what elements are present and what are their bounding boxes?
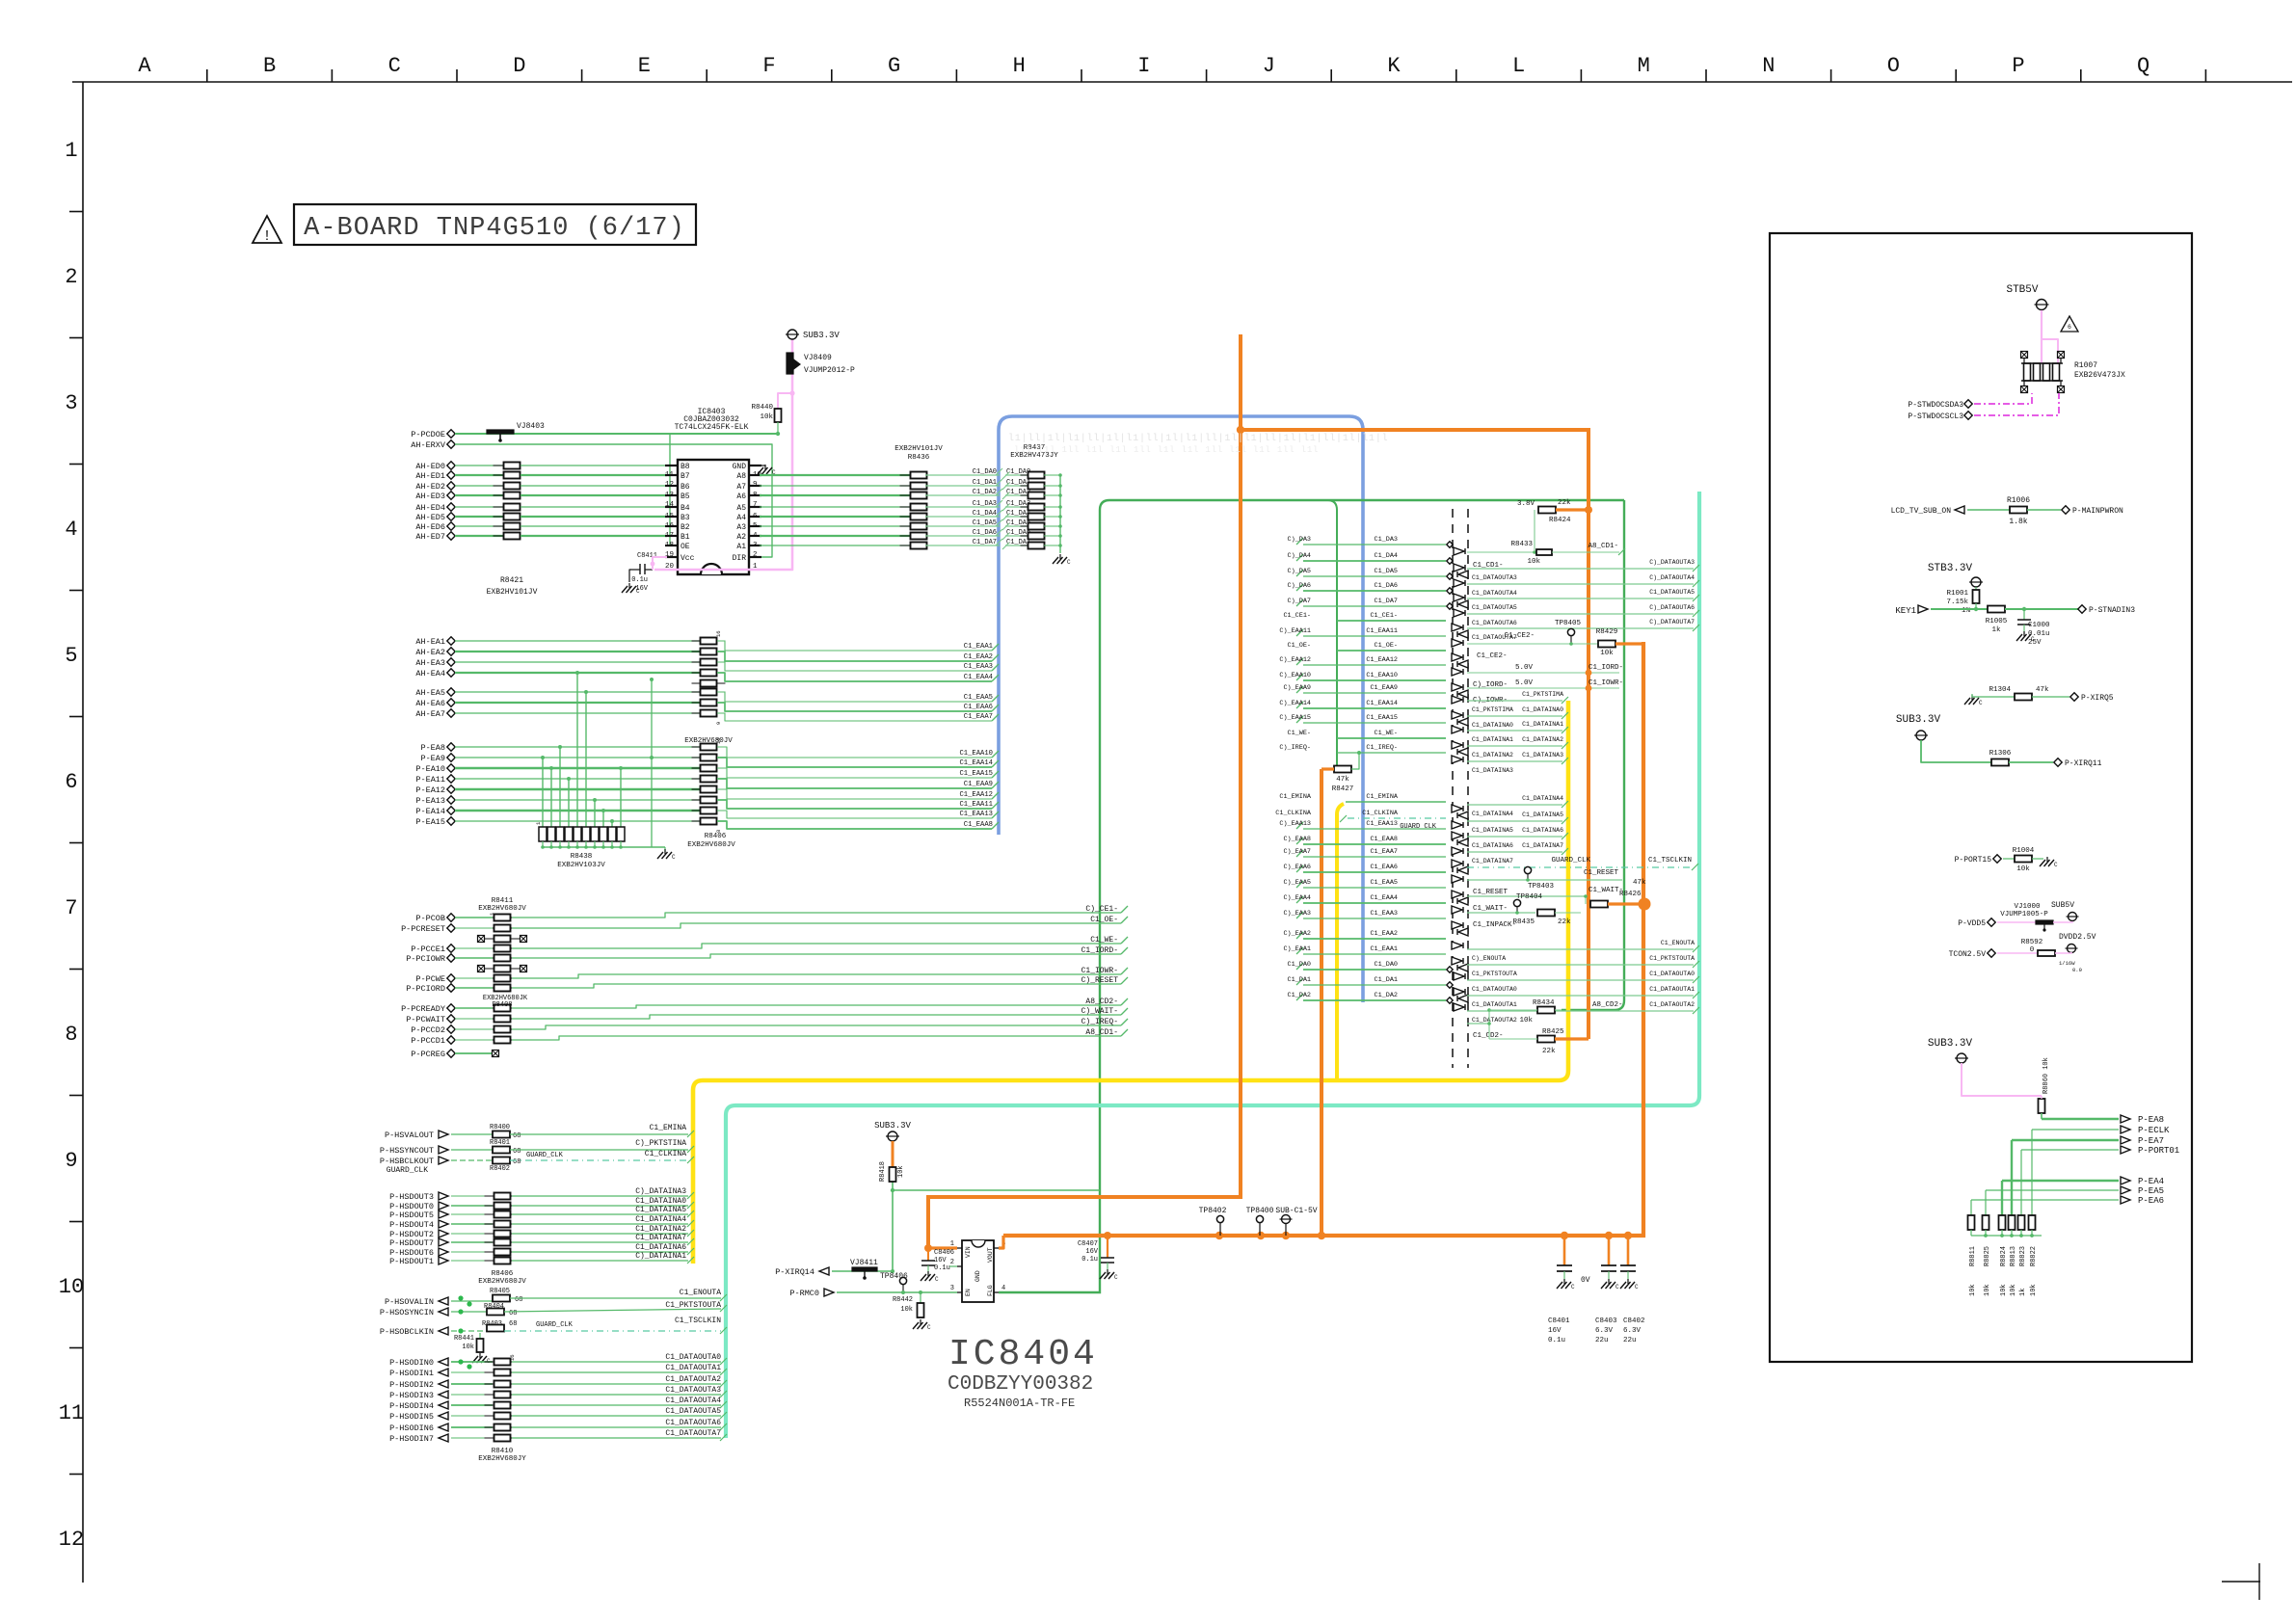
svg-text:0.1u: 0.1u	[1548, 1337, 1565, 1344]
resistor network R8406 lower EA	[692, 746, 726, 748]
svg-text:AH-ED7: AH-ED7	[415, 532, 445, 542]
svg-text:EN: EN	[965, 1289, 972, 1296]
svg-text:R8426: R8426	[1619, 891, 1642, 898]
svg-text:C1000: C1000	[2028, 622, 2050, 629]
svg-text:C1_PKTSTIMA: C1_PKTSTIMA	[1472, 706, 1513, 713]
svg-text:10k: 10k	[897, 1165, 905, 1178]
node P-XIRQ14	[819, 1267, 829, 1275]
svg-text:VJUMP2012-P: VJUMP2012-P	[804, 366, 855, 375]
svg-text:C1_WE-: C1_WE-	[1375, 730, 1398, 737]
svg-text:C)_EAA12: C)_EAA12	[1279, 656, 1311, 664]
svg-text:SUB3.3V: SUB3.3V	[874, 1121, 911, 1131]
svg-text:16V: 16V	[1548, 1327, 1562, 1335]
svg-text:C1_EAA4: C1_EAA4	[964, 674, 993, 681]
wire pink to R8860	[1962, 1063, 2042, 1096]
svg-text:B8: B8	[681, 463, 690, 471]
frame border top line	[72, 81, 2292, 83]
wire AH-ERXV to DIR	[455, 444, 772, 557]
svg-text:A7: A7	[736, 483, 746, 492]
nodes AH-ED0..7	[447, 462, 455, 469]
svg-text:10k: 10k	[2030, 1284, 2038, 1296]
svg-text:C1_DATAOUTA1: C1_DATAOUTA1	[1649, 986, 1695, 993]
row P-ECLK	[2032, 1129, 2119, 1131]
wire orange VOUT to bus	[999, 1236, 1003, 1248]
svg-text:EXB2HV680JV: EXB2HV680JV	[478, 1278, 526, 1286]
svg-text:R1001: R1001	[1946, 590, 1968, 598]
svg-text:SUB3.3V: SUB3.3V	[803, 331, 840, 340]
svg-text:3.8V: 3.8V	[1517, 500, 1535, 508]
svg-text:R8440: R8440	[751, 404, 773, 412]
svg-text:A4: A4	[736, 514, 746, 522]
svg-text:C1_EAA7: C1_EAA7	[1370, 848, 1398, 856]
svg-text:P-HSBCLKOUT: P-HSBCLKOUT	[380, 1157, 434, 1166]
svg-text:LCD_TV_SUB_ON: LCD_TV_SUB_ON	[1891, 507, 1952, 516]
wires R8421 to IC8403	[521, 465, 667, 466]
svg-text:F: F	[762, 54, 775, 78]
svg-text:A8_CD2-: A8_CD2-	[1592, 1001, 1623, 1009]
svg-text:R1007: R1007	[2074, 361, 2097, 370]
svg-text:10k: 10k	[1600, 650, 1614, 657]
svg-text:SUB5V: SUB5V	[2051, 901, 2074, 910]
ground at IC8403 GND pin	[760, 465, 765, 466]
svg-text:C1_DATAINA6: C1_DATAINA6	[1522, 827, 1563, 834]
svg-text:C8402: C8402	[1623, 1317, 1645, 1325]
svg-text:C1_EAA10: C1_EAA10	[1366, 672, 1398, 679]
resistor network R8421	[494, 465, 531, 466]
svg-text:P-PCREG: P-PCREG	[411, 1050, 445, 1059]
svg-text:EXB26V473JX: EXB26V473JX	[2074, 371, 2125, 380]
svg-text:P-EA11: P-EA11	[415, 775, 445, 785]
svg-text:D: D	[513, 54, 525, 78]
svg-text:C)_EAA9: C)_EAA9	[1283, 684, 1311, 692]
resistor array R1007	[2024, 363, 2031, 381]
svg-text:C)_PKTSTINA: C)_PKTSTINA	[635, 1139, 686, 1148]
wire orange 446 horizontal	[1241, 430, 1589, 1039]
svg-text:C1_DATAINA3: C1_DATAINA3	[1522, 752, 1563, 758]
svg-text:EXB2HV680JV: EXB2HV680JV	[687, 841, 735, 849]
resistor network R8411	[485, 917, 521, 918]
svg-text:C1_EAA15: C1_EAA15	[1366, 714, 1398, 722]
svg-text:C1_IOWR-: C1_IOWR-	[1081, 967, 1118, 975]
node P-RMC0	[824, 1289, 834, 1296]
resistor network R8436	[900, 474, 938, 476]
svg-text:C1_DATAOUTA5: C1_DATAOUTA5	[665, 1407, 721, 1416]
svg-text:C1_DATAINA3: C1_DATAINA3	[1472, 767, 1513, 774]
svg-text:TCON2.5V: TCON2.5V	[1949, 950, 1987, 959]
svg-text:C1_DATAOUTA6: C1_DATAOUTA6	[665, 1419, 721, 1427]
svg-text:VJ1000: VJ1000	[2014, 903, 2041, 911]
wires HSODIN outputs to cyan	[512, 1361, 721, 1363]
svg-text:B7: B7	[681, 472, 690, 481]
svg-text:C1_DATAOUTA2: C1_DATAOUTA2	[1649, 1001, 1695, 1008]
wire orange R8427 drop	[1320, 769, 1323, 1236]
svg-text:I: I	[1137, 54, 1150, 78]
resistor network R8410	[485, 1361, 521, 1363]
testpoint TP8406 circle	[899, 1277, 906, 1284]
svg-text:10k: 10k	[2016, 865, 2030, 873]
svg-text:B4: B4	[681, 504, 690, 513]
group2 ENOUTA outputs to cyan	[1467, 948, 1694, 950]
svg-text:C1_TSCLKIN: C1_TSCLKIN	[675, 1317, 721, 1325]
svg-text:R1304: R1304	[1989, 686, 2011, 694]
svg-text:P-EA4: P-EA4	[2138, 1177, 2164, 1186]
svg-text:C)_EAA14: C)_EAA14	[1279, 700, 1311, 707]
resistor R1004	[2015, 856, 2032, 863]
svg-text:R8401: R8401	[490, 1139, 510, 1147]
svg-text:C1_EAA3: C1_EAA3	[1370, 910, 1398, 918]
svg-text:R8408: R8408	[492, 1001, 512, 1009]
svg-text:6.3V: 6.3V	[1623, 1327, 1642, 1335]
svg-text:C1_INPACK-: C1_INPACK-	[1473, 921, 1516, 929]
svg-text:C1_DATAOUTA0: C1_DATAOUTA0	[665, 1353, 721, 1362]
row P-EA4	[2002, 1180, 2119, 1182]
svg-text:16: 16	[509, 1354, 516, 1361]
svg-text:C1_PKTSTOUTA: C1_PKTSTOUTA	[1649, 955, 1695, 962]
svg-text:C1_DA7: C1_DA7	[973, 539, 997, 546]
svg-text:4: 4	[65, 518, 77, 542]
frame border left line	[82, 82, 84, 1583]
resistor R8400	[493, 1131, 510, 1138]
group1 IORD IOWR rows	[1467, 672, 1619, 674]
warning triangle 6	[2061, 316, 2078, 332]
svg-text:16: 16	[715, 737, 722, 744]
svg-text:0.1u: 0.1u	[1081, 1256, 1098, 1264]
wires EA lower outputs	[717, 747, 992, 758]
svg-text:22u: 22u	[1595, 1337, 1609, 1344]
svg-text:R8411: R8411	[492, 897, 514, 905]
svg-text:68: 68	[513, 1132, 521, 1140]
wire blue bus C1_DA	[999, 416, 1363, 1002]
svg-text:P-HSODIN6: P-HSODIN6	[389, 1423, 434, 1433]
svg-text:A3: A3	[736, 523, 746, 532]
svg-text:C1_DATAOUTA3: C1_DATAOUTA3	[1472, 574, 1517, 581]
svg-text:C1_DATAINA5: C1_DATAINA5	[635, 1206, 686, 1214]
svg-text:A8_CD1-: A8_CD1-	[1588, 543, 1618, 550]
row P-EA5	[1986, 1189, 2119, 1191]
svg-text:M: M	[1638, 54, 1650, 78]
svg-text:C8403: C8403	[1595, 1317, 1617, 1325]
svg-text:12: 12	[59, 1528, 84, 1552]
svg-text:7.15k: 7.15k	[1946, 599, 1968, 606]
svg-text:K: K	[1387, 54, 1401, 78]
svg-text:R8438: R8438	[571, 853, 593, 861]
svg-text:C1_OE-: C1_OE-	[1090, 916, 1118, 924]
power SUB3.3V top	[788, 330, 797, 339]
svg-text:P-EA6: P-EA6	[2138, 1196, 2164, 1206]
title box A-BOARD TNP4G510 (6/17)	[294, 204, 696, 245]
wires AH-ED to R8421	[455, 465, 504, 466]
row P-EA7	[2012, 1139, 2119, 1141]
jumper VJ8411	[852, 1267, 877, 1271]
svg-text:C1_EAA14: C1_EAA14	[959, 759, 993, 767]
svg-text:TP8403: TP8403	[1528, 883, 1555, 891]
svg-text:C)_EAA5: C)_EAA5	[1283, 879, 1311, 887]
svg-text:E: E	[638, 54, 651, 78]
svg-text:C)_EAA8: C)_EAA8	[1283, 836, 1311, 843]
svg-text:P-PCIOWR: P-PCIOWR	[406, 954, 445, 964]
svg-text:C1_CLKINA: C1_CLKINA	[1275, 810, 1312, 817]
wire green bus ENOUTA vertical	[999, 500, 1624, 1292]
svg-text:EXB2HV680JY: EXB2HV680JY	[478, 1455, 526, 1463]
svg-text:TP8405: TP8405	[1555, 620, 1582, 627]
svg-text:J: J	[1263, 54, 1275, 78]
svg-text:P-EA8: P-EA8	[2138, 1115, 2164, 1125]
node P-HSOVALIN	[439, 1297, 448, 1305]
svg-text:P-HSDOUT5: P-HSDOUT5	[389, 1211, 434, 1220]
svg-text:C1_CLKINA: C1_CLKINA	[1362, 810, 1399, 817]
svg-text:4: 4	[1001, 1285, 1005, 1292]
group2 wait row with R8426	[1467, 895, 1586, 897]
svg-text:C1_DA7: C1_DA7	[1375, 598, 1398, 605]
svg-text:0.1u: 0.1u	[934, 1264, 950, 1272]
svg-text:R8860 10k: R8860 10k	[2042, 1057, 2050, 1094]
group2 inpack row with R8435 TP8404	[1467, 912, 1535, 914]
row P-EA8	[2042, 1118, 2119, 1120]
svg-text:P-XIRQ11: P-XIRQ11	[2065, 759, 2102, 768]
group2 CD2 row	[1467, 1023, 1489, 1024]
svg-text:AH-ED5: AH-ED5	[415, 513, 445, 522]
row P-PORT01	[2021, 1149, 2119, 1151]
svg-text:C)_WAIT-: C)_WAIT-	[1081, 1007, 1118, 1016]
svg-text:A6: A6	[736, 492, 746, 501]
resistor network R8437	[1021, 474, 1053, 476]
svg-text:2: 2	[950, 1259, 954, 1266]
svg-text:R8403: R8403	[482, 1320, 502, 1328]
svg-text:P-EA9: P-EA9	[420, 754, 445, 763]
svg-text:10: 10	[59, 1275, 84, 1299]
svg-text:C1_OE-: C1_OE-	[1375, 642, 1398, 650]
svg-text:R1006: R1006	[2007, 496, 2030, 505]
svg-text:l1l l1l 1ll l1l l1l 1ll l1l l1: l1l l1l 1ll l1l l1l 1ll l1l l1l 1ll l1l …	[1014, 445, 1319, 455]
svg-text:R8406: R8406	[705, 833, 727, 840]
svg-text:P-PCWAIT: P-PCWAIT	[406, 1015, 445, 1024]
wires EA upper outputs C1_EAA1-7	[717, 641, 992, 651]
svg-text:AH-EA4: AH-EA4	[415, 669, 445, 678]
svg-text:GND: GND	[974, 1270, 981, 1282]
frame corner mark bottom right	[2222, 1581, 2260, 1583]
svg-text:C: C	[1114, 1274, 1118, 1281]
svg-text:C1_DATAOUTA5: C1_DATAOUTA5	[1649, 589, 1695, 596]
svg-text:C)_EAA4: C)_EAA4	[1283, 894, 1311, 902]
svg-text:C1_EAA14: C1_EAA14	[1366, 700, 1398, 707]
jumper VJ8403	[487, 430, 514, 434]
svg-text:VJ8411: VJ8411	[850, 1259, 878, 1267]
svg-text:P-HSODIN1: P-HSODIN1	[389, 1369, 434, 1378]
svg-text:P-EA15: P-EA15	[415, 817, 445, 827]
svg-text:C1_DATAINA5: C1_DATAINA5	[1522, 811, 1563, 818]
svg-text:A8_CD1-: A8_CD1-	[1085, 1028, 1118, 1037]
group2 input rows	[1346, 801, 1446, 803]
wire pin2 gnd	[949, 1265, 957, 1267]
wire pink SUB3.3V net	[654, 339, 792, 570]
svg-text:22u: 22u	[1623, 1337, 1637, 1344]
svg-text:A8: A8	[736, 472, 746, 481]
svg-text:68: 68	[515, 1296, 522, 1304]
resistor R1001	[1975, 587, 1977, 590]
svg-text:AH-ED2: AH-ED2	[415, 482, 445, 492]
svg-text:C: C	[672, 854, 676, 861]
svg-text:AH-EA1: AH-EA1	[415, 637, 445, 647]
group1 DATAINA rows to yellow	[1467, 700, 1562, 702]
svg-text:R8405: R8405	[490, 1288, 510, 1295]
svg-text:C1_IREQ-: C1_IREQ-	[1366, 744, 1398, 752]
warning triangle	[253, 216, 281, 243]
ic IC8403 pins left	[665, 465, 678, 466]
svg-text:R8418: R8418	[879, 1161, 887, 1182]
svg-text:R8424: R8424	[1549, 517, 1571, 524]
bus right of R8437 to ground	[1059, 475, 1061, 553]
svg-text:C1_DATAINA2: C1_DATAINA2	[1522, 736, 1563, 743]
svg-text:C)_EAA2: C)_EAA2	[1283, 930, 1311, 938]
resistor R8404	[487, 1309, 504, 1316]
row LCD_TV_SUB_ON	[1955, 506, 1964, 514]
svg-text:R8410: R8410	[492, 1448, 514, 1455]
svg-text:C)_DA5: C)_DA5	[1288, 568, 1311, 575]
wire orange SUB5V vertical	[928, 334, 1241, 1248]
group2 reset row	[1467, 879, 1622, 881]
svg-text:GUARD_CLK: GUARD_CLK	[1400, 823, 1437, 831]
svg-text:C1_DATAOUTA1: C1_DATAOUTA1	[665, 1364, 721, 1372]
svg-text:AH-EA5: AH-EA5	[415, 688, 445, 698]
svg-text:C)_CE1-: C)_CE1-	[1085, 905, 1118, 914]
svg-text:C1_DATAINA2: C1_DATAINA2	[635, 1225, 686, 1234]
resistor R8402	[493, 1157, 510, 1164]
svg-text:C1_RESET: C1_RESET	[1473, 889, 1508, 896]
svg-text:R1004: R1004	[2013, 847, 2035, 855]
wires R8436 to blue bus with C1_DA labels	[925, 474, 1000, 476]
svg-text:P-STNADIN3: P-STNADIN3	[2089, 606, 2135, 615]
wires blue bus to R8437 labels	[1005, 474, 1028, 476]
svg-text:P-MAINPWRON: P-MAINPWRON	[2072, 507, 2123, 516]
svg-text:C1_DA0: C1_DA0	[1288, 961, 1311, 969]
svg-text:C: C	[1571, 1284, 1575, 1290]
resistor network R8406b	[485, 1195, 521, 1197]
svg-text:l1|ll|1l|l1|ll|1l|l1|ll|1l|l1|: l1|ll|1l|l1|ll|1l|l1|ll|1l|l1|ll|1l|l1|l…	[1008, 433, 1388, 444]
svg-text:C1_PKTSTOUTA: C1_PKTSTOUTA	[1472, 971, 1517, 977]
svg-text:C1_EAA2: C1_EAA2	[1370, 930, 1398, 938]
svg-text:VJ8403: VJ8403	[517, 422, 545, 431]
capacitor C8403	[1608, 1236, 1611, 1265]
svg-text:P-STWDOCSDA3: P-STWDOCSDA3	[1908, 401, 1963, 410]
svg-text:P-HSOVALIN: P-HSOVALIN	[385, 1297, 434, 1307]
svg-text:C1_DA6: C1_DA6	[1375, 582, 1398, 590]
svg-text:C1_CE1-: C1_CE1-	[1370, 612, 1398, 620]
svg-text:1: 1	[65, 139, 77, 163]
ground EA section	[664, 847, 666, 852]
svg-text:0.1u: 0.1u	[631, 576, 648, 584]
svg-text:C1_EAA8: C1_EAA8	[1370, 836, 1398, 843]
svg-text:C1_DATAINA4: C1_DATAINA4	[1522, 795, 1563, 802]
svg-text:C1_DATAOUTA4: C1_DATAOUTA4	[1472, 590, 1517, 597]
svg-text:C: C	[1635, 1284, 1639, 1290]
svg-text:0V: 0V	[1581, 1276, 1590, 1285]
ic IC8403 pins right	[749, 465, 761, 466]
svg-text:TP8402: TP8402	[1199, 1207, 1227, 1215]
svg-text:KEY1: KEY1	[1895, 606, 1916, 616]
svg-text:P-HSSYNCOUT: P-HSSYNCOUT	[380, 1146, 434, 1156]
svg-text:P-RMC0: P-RMC0	[789, 1289, 819, 1298]
svg-text:C1_DA0: C1_DA0	[973, 468, 997, 476]
svg-text:0.0: 0.0	[2072, 967, 2082, 973]
svg-text:B3: B3	[681, 514, 690, 522]
svg-text:R8400: R8400	[490, 1124, 510, 1131]
svg-text:C1_DATAINA0: C1_DATAINA0	[1522, 706, 1563, 713]
svg-text:GUARD_CLK: GUARD_CLK	[526, 1152, 564, 1159]
node P-HSOBCLKIN	[439, 1327, 448, 1335]
svg-text:C1_EAA2: C1_EAA2	[964, 653, 993, 661]
svg-text:R8441: R8441	[454, 1335, 474, 1343]
svg-text:C1_DATAOUTA2: C1_DATAOUTA2	[665, 1375, 721, 1384]
resistor R8441	[479, 1333, 481, 1339]
svg-text:C1_EMINA: C1_EMINA	[1279, 793, 1312, 801]
svg-text:R8429: R8429	[1596, 628, 1618, 636]
svg-text:C1_DATAOUTA4: C1_DATAOUTA4	[665, 1397, 721, 1405]
svg-text:68: 68	[509, 1310, 517, 1317]
svg-text:AH-EA2: AH-EA2	[415, 648, 445, 657]
svg-text:C)_DATAOUTA6: C)_DATAOUTA6	[1649, 604, 1695, 611]
svg-text:P-HSDOUT1: P-HSDOUT1	[389, 1257, 434, 1266]
svg-text:C8407: C8407	[1078, 1240, 1098, 1248]
svg-text:C1_EAA13: C1_EAA13	[1366, 820, 1398, 828]
svg-text:C)_RESET: C)_RESET	[1081, 976, 1119, 985]
dashed box lines	[1452, 509, 1454, 1068]
svg-text:P-HSODIN5: P-HSODIN5	[389, 1412, 434, 1422]
wire pink STB5V	[2041, 310, 2042, 363]
svg-text:C1_WAIT-: C1_WAIT-	[1473, 905, 1508, 913]
svg-text:FLG: FLG	[987, 1285, 994, 1296]
resistor R8401	[493, 1147, 510, 1154]
svg-text:AH-EA7: AH-EA7	[415, 709, 445, 719]
svg-text:P-EA14: P-EA14	[415, 807, 445, 816]
svg-text:P-PCWE: P-PCWE	[415, 974, 445, 984]
group2 guard clk dashed out	[1467, 866, 1692, 868]
svg-text:C1_EAA13: C1_EAA13	[959, 811, 993, 818]
svg-text:C1_EMINA: C1_EMINA	[650, 1124, 687, 1132]
svg-text:B6: B6	[681, 483, 690, 492]
svg-text:C1_DA2: C1_DA2	[973, 489, 997, 496]
row P-XIRQ5	[1971, 695, 1973, 700]
pullup resistors R8811 group	[1970, 1200, 1972, 1215]
jumper VJ8409	[787, 353, 793, 374]
svg-text:P-HSDOUT3: P-HSDOUT3	[389, 1192, 434, 1202]
svg-text:P-EA5: P-EA5	[2138, 1186, 2164, 1196]
resistor R8440	[775, 409, 782, 422]
svg-text:R8406: R8406	[492, 1270, 514, 1278]
svg-text:C8401: C8401	[1548, 1317, 1570, 1325]
svg-text:AH-ED4: AH-ED4	[415, 503, 445, 513]
svg-text:P-PCDOE: P-PCDOE	[411, 430, 445, 439]
svg-text:EXB2HV103JV: EXB2HV103JV	[557, 862, 605, 869]
svg-text:C1_EAA5: C1_EAA5	[1370, 879, 1398, 887]
svg-text:R8823: R8823	[2019, 1246, 2027, 1266]
svg-text:C1_DATAINA5: C1_DATAINA5	[1472, 827, 1513, 834]
resistor R1306	[1991, 759, 2009, 766]
svg-text:P-PCOB: P-PCOB	[415, 914, 445, 923]
svg-text:C1_EAA1: C1_EAA1	[1370, 945, 1398, 953]
svg-text:C1_EAA9: C1_EAA9	[1370, 684, 1398, 692]
svg-text:AH-ED6: AH-ED6	[415, 522, 445, 532]
svg-text:B: B	[263, 54, 276, 78]
svg-text:STB5V: STB5V	[2006, 284, 2038, 296]
svg-text:C1_EAA12: C1_EAA12	[1366, 656, 1398, 664]
node P-HSVALOUT	[439, 1131, 448, 1138]
svg-text:C1_PKTSTIMA: C1_PKTSTIMA	[1522, 691, 1563, 698]
svg-text:N: N	[1762, 54, 1775, 78]
svg-text:B1: B1	[681, 533, 690, 542]
node P-HSOSYNCIN	[439, 1308, 448, 1316]
svg-text:EXB2HV101JV: EXB2HV101JV	[487, 588, 538, 597]
svg-text:P-HSODIN4: P-HSODIN4	[389, 1401, 434, 1411]
